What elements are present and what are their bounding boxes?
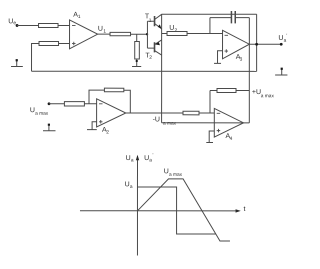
label Uamax graph: [164, 168, 183, 178]
svg-text:U: U: [169, 25, 174, 32]
label Ua' axis: [144, 152, 153, 163]
svg-text:a: a: [131, 158, 134, 163]
svg-text:U: U: [278, 35, 283, 42]
svg-text:+U: +U: [252, 89, 261, 96]
graph y-axis: [136, 156, 138, 256]
graph x-axis arrowhead: [236, 209, 241, 212]
resistor R2: [39, 41, 59, 45]
svg-text:a: a: [130, 185, 133, 190]
svg-text:e: e: [13, 21, 16, 26]
svg-text:2: 2: [106, 129, 109, 135]
wire feedback to R2 left: [32, 43, 40, 71]
wire A3 output: [249, 43, 281, 45]
wire R3 to base line: [131, 33, 148, 35]
A2 plus marker: [99, 120, 103, 124]
op-amp A3: [223, 30, 250, 59]
wire -Uamax line: [162, 122, 250, 124]
wire Uamax to R8: [49, 103, 64, 105]
wire emitter vertical line: [161, 14, 163, 123]
label U2: [169, 25, 177, 34]
op-amp A2: [97, 99, 126, 127]
label T1: [145, 13, 152, 23]
wire A4 plus to ground: [209, 131, 214, 143]
transistor T1: [147, 14, 161, 29]
resistor R3: [110, 32, 131, 35]
label T2: [145, 52, 152, 60]
svg-text:a max: a max: [261, 94, 275, 99]
node Uamax source dot: [48, 102, 51, 105]
op-amp A1: [70, 20, 98, 49]
label A2: [102, 127, 109, 136]
A4 plus marker: [217, 129, 221, 133]
node base junction dot: [146, 33, 148, 35]
label Ua axis: [126, 155, 134, 164]
svg-text:-U: -U: [153, 116, 160, 123]
label A3: [236, 54, 243, 63]
graph x-axis: [80, 210, 236, 212]
A3 plus marker: [225, 49, 229, 53]
label +Uamax: [252, 89, 275, 99]
label U1: [98, 26, 106, 35]
wire A3 inv input up to capacitor line: [209, 18, 211, 34]
wire R6 to right vertical: [236, 90, 249, 92]
wire Ue to R1: [17, 24, 38, 26]
wire capacitor right: [235, 17, 249, 19]
ground below R4: [132, 59, 141, 67]
wire A2 output line to R7: [126, 112, 183, 114]
wire A2 feedback left vertical: [89, 90, 104, 104]
ground right: [275, 68, 287, 75]
wire R7 to A4 inverting input: [199, 112, 214, 114]
node junction dot A3 output: [255, 43, 258, 46]
svg-text:t: t: [243, 206, 245, 213]
wire bottom rail: [32, 70, 257, 72]
A3 minus marker: [225, 34, 229, 36]
label A1: [73, 12, 81, 20]
capacitor C1: [231, 11, 235, 23]
A1 plus marker: [72, 42, 76, 46]
A4 minus marker: [217, 112, 221, 114]
graph y-axis arrowhead: [136, 155, 139, 161]
label t: [243, 206, 245, 213]
resistor R8: [64, 102, 84, 106]
label Ua level: [125, 181, 133, 190]
ground A2 plus: [87, 129, 97, 131]
svg-text:a: a: [284, 39, 287, 44]
svg-text:a: a: [149, 158, 152, 163]
label Ua': [278, 33, 287, 44]
wire transistor base vertical: [146, 21, 148, 48]
resistor R4 vertical: [135, 41, 140, 59]
wire R9 right to output: [124, 90, 131, 113]
svg-text:': ': [152, 153, 153, 159]
wire A4 feedback vertical: [209, 91, 211, 113]
svg-text:U: U: [98, 26, 103, 33]
svg-text:4: 4: [230, 136, 233, 142]
wire A1 output to R3: [98, 33, 110, 35]
svg-text:1: 1: [78, 14, 81, 20]
curve Ua square wave: [137, 187, 216, 234]
wire right feedback vertical: [248, 18, 250, 123]
wire emitter node to R5: [162, 33, 167, 35]
wire R2 to A1 noninverting input: [59, 42, 70, 44]
wire R1 to A1 inverting input: [58, 24, 70, 26]
wire A3 plus input to ground: [218, 51, 223, 64]
svg-text:2: 2: [149, 55, 152, 61]
A1 minus marker: [72, 24, 76, 26]
wire A2 plus to ground: [92, 122, 97, 130]
resistor R9: [104, 88, 123, 92]
svg-text:a max: a max: [169, 173, 183, 178]
svg-text:U: U: [125, 181, 130, 188]
ground top-left: [11, 59, 23, 66]
node Ua' output dot: [280, 43, 283, 46]
wire stub to R4: [136, 34, 138, 41]
label -Uamax: [153, 116, 177, 126]
curve Ua' triangle wave: [137, 179, 230, 241]
resistor R5: [167, 32, 187, 36]
ground A3 plus: [214, 62, 221, 64]
A2 minus marker: [99, 103, 103, 105]
transistor T2: [147, 40, 161, 55]
svg-text:a max: a max: [35, 112, 49, 117]
label Ue: [8, 18, 16, 26]
resistor R7: [183, 111, 199, 115]
wire right vertical from rail to bottom rail: [256, 14, 258, 71]
ground below Uamax: [43, 124, 56, 131]
label A4: [225, 133, 232, 142]
svg-text:1: 1: [149, 18, 152, 24]
label Uamax left: [30, 107, 49, 117]
ground A4 plus: [206, 142, 213, 144]
wire to R6: [210, 90, 217, 92]
wire capacitor left: [210, 17, 231, 19]
wire top rail to right: [162, 13, 257, 15]
resistor R1: [39, 23, 59, 27]
svg-text:': ': [286, 33, 287, 39]
node Ue input dot: [16, 24, 19, 27]
op-amp A4: [214, 108, 243, 137]
resistor R6: [217, 89, 236, 93]
wire R5 to A3 inverting input: [187, 33, 223, 35]
svg-text:3: 3: [240, 57, 243, 63]
wire R8 to A2 inverting input: [84, 103, 96, 105]
